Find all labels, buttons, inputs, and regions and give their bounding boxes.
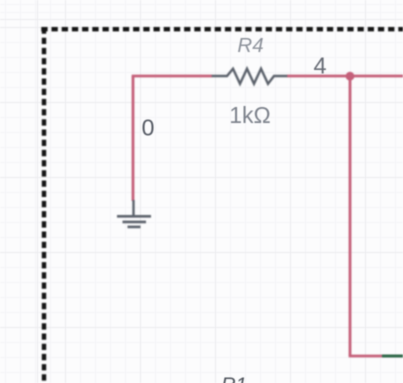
svg-text:4: 4 bbox=[313, 53, 326, 79]
svg-text:1kΩ: 1kΩ bbox=[229, 102, 271, 128]
svg-text:R1: R1 bbox=[221, 375, 247, 383]
svg-text:0: 0 bbox=[142, 115, 155, 141]
svg-text:R4: R4 bbox=[237, 34, 263, 57]
